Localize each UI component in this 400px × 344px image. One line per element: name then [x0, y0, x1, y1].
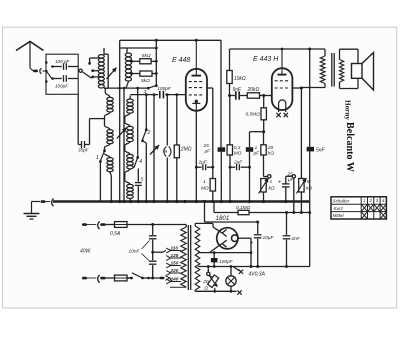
- wire: [123, 88, 125, 201]
- antenna input box: [46, 54, 78, 94]
- svg-text:4V0,3A: 4V0,3A: [249, 272, 266, 278]
- mains transformer primary: [181, 227, 186, 287]
- svg-text:kΩ: kΩ: [306, 186, 312, 192]
- trimmer arrow T1: [117, 128, 127, 139]
- svg-text:20: 20: [202, 279, 209, 285]
- rail B+ raw: [204, 202, 206, 223]
- svg-text:+: +: [278, 180, 281, 186]
- capacitor 100pF hum: [213, 253, 215, 258]
- svg-text:25: 25: [203, 143, 210, 149]
- svg-text:40W: 40W: [80, 249, 92, 255]
- resistor 10k ohm: [229, 49, 231, 71]
- capacitor 100pF upper: [53, 66, 62, 68]
- antenna coil L1: [103, 48, 105, 55]
- svg-text:100 pF: 100 pF: [55, 59, 70, 64]
- svg-text:μF: μF: [253, 151, 261, 157]
- wire: [229, 96, 231, 145]
- wires to speaker: [340, 48, 359, 50]
- svg-text:+: +: [251, 241, 254, 247]
- capacitor 35pF: [81, 141, 83, 148]
- svg-text:110: 110: [171, 246, 179, 251]
- filament x marks: [276, 113, 280, 117]
- secondary top wire to rectifier: [194, 223, 196, 226]
- winding bottom return: [170, 286, 186, 288]
- antenna coil L3: [107, 130, 113, 133]
- svg-text:E 443 H: E 443 H: [253, 56, 279, 63]
- output transformer secondary: [339, 49, 341, 59]
- wire 35pF riser: [89, 119, 91, 145]
- resistor 20k ohm cathode: [263, 132, 265, 145]
- fuse lower: [115, 275, 128, 281]
- svg-text:4: 4: [139, 159, 142, 165]
- oscillator coil L5: [129, 96, 131, 99]
- svg-text:10μF: 10μF: [263, 235, 275, 241]
- E443H screen wire: [292, 87, 301, 89]
- svg-text:0,3: 0,3: [234, 145, 241, 151]
- L3-L4 link: [105, 144, 111, 148]
- svg-text:0,5A: 0,5A: [110, 231, 121, 237]
- E443H anode: [278, 74, 287, 76]
- rectifier cathode: [232, 235, 239, 242]
- antenna coil L4: [105, 154, 111, 158]
- L7-L8 link: [125, 169, 130, 173]
- svg-text:1: 1: [255, 145, 258, 151]
- potentiometer 1k ohm: [261, 179, 266, 193]
- svg-text:MΩ: MΩ: [201, 186, 209, 192]
- svg-text:Mittel: Mittel: [333, 213, 345, 218]
- svg-text:kΩ: kΩ: [268, 151, 274, 157]
- svg-text:5: 5: [141, 177, 144, 182]
- svg-text:Ω: Ω: [204, 286, 208, 292]
- resistor 0.3M ohm: [227, 145, 232, 155]
- output transformer primary: [324, 49, 326, 56]
- svg-text:20: 20: [267, 145, 274, 151]
- antenna: [16, 42, 44, 51]
- anode line to transformer: [230, 48, 326, 50]
- svg-text:35pF: 35pF: [78, 148, 90, 153]
- tube E443H: [272, 68, 293, 110]
- svg-text:1: 1: [203, 179, 206, 185]
- E443H grid dashes: [275, 80, 290, 82]
- oscillator coil L8: [127, 184, 134, 187]
- secondary tap wire to rectifier anode: [198, 252, 251, 254]
- decoupling 5nF: [309, 49, 311, 147]
- svg-text:10kΩ: 10kΩ: [234, 76, 246, 82]
- mains transformer taps: [166, 248, 171, 253]
- L2-L3 link: [105, 112, 111, 116]
- svg-text:150: 150: [171, 261, 179, 266]
- potentiometer 5k ohm: [292, 175, 295, 178]
- trimmer arrow T2: [153, 95, 155, 202]
- heater return with x: [195, 290, 236, 292]
- svg-text:2: 2: [368, 198, 372, 203]
- svg-text:1801: 1801: [216, 215, 230, 222]
- svg-text:MΩ: MΩ: [234, 151, 242, 157]
- svg-text:0,5MΩ: 0,5MΩ: [246, 112, 261, 118]
- svg-text:μF: μF: [204, 149, 212, 155]
- resistor 20 ohm variable: [207, 267, 209, 273]
- L6-L7 link: [125, 142, 130, 146]
- table X marks kurz: [361, 204, 367, 211]
- resistor 2M ohm: [176, 95, 178, 145]
- svg-text:Kurz: Kurz: [334, 206, 344, 211]
- switch line from L1: [104, 87, 148, 89]
- bus plug: [41, 200, 46, 203]
- mains transformer core: [187, 225, 189, 290]
- L1 core bracket: [107, 54, 109, 88]
- svg-text:Belcanto W: Belcanto W: [344, 122, 355, 172]
- mains transformer secondary: [195, 226, 200, 290]
- svg-text:kΩ: kΩ: [269, 186, 275, 192]
- svg-text:220: 220: [170, 268, 179, 273]
- wire from box to 35pF: [77, 94, 79, 141]
- rail corner: [309, 213, 311, 267]
- svg-text:Horny: Horny: [344, 100, 352, 120]
- svg-text:5kΩ: 5kΩ: [142, 53, 151, 59]
- tube E448: [186, 69, 207, 111]
- svg-text:Schalter: Schalter: [333, 198, 350, 203]
- switch in box: [45, 61, 48, 64]
- speaker: [352, 64, 363, 79]
- mains switch: [130, 277, 133, 280]
- svg-text:2μF: 2μF: [233, 160, 243, 166]
- svg-text:5: 5: [307, 179, 310, 185]
- E448 anode: [192, 75, 202, 77]
- svg-text:5kΩ: 5kΩ: [141, 78, 150, 84]
- svg-text:100pF: 100pF: [219, 259, 234, 265]
- oscillator coil L7: [127, 154, 134, 157]
- capacitor 2nF: [286, 213, 288, 235]
- antenna coil L2: [105, 93, 110, 98]
- wire branch to 1uF: [250, 131, 264, 133]
- svg-text:7a: 7a: [162, 149, 168, 155]
- mains plug upper: [82, 223, 87, 226]
- rectifier tube 1801: [217, 228, 238, 249]
- capacitor 10nF lower: [149, 260, 157, 262]
- svg-text:20kΩ: 20kΩ: [247, 87, 260, 93]
- anode supply line top: [120, 39, 221, 41]
- pilot lamp: [230, 267, 232, 276]
- table X marks mittel: [361, 212, 367, 219]
- wire left edge: [119, 40, 121, 201]
- wire anode down: [220, 40, 222, 147]
- heater wire with x: [233, 267, 240, 271]
- resistor 5k ohm lower: [140, 71, 152, 76]
- E448 cathode wire: [195, 111, 197, 202]
- antenna plug: [30, 68, 33, 71]
- oscillator coil L6: [127, 126, 134, 130]
- svg-text:100pF: 100pF: [55, 84, 69, 89]
- trimmer arrow on L1: [107, 68, 117, 80]
- wave switch contact: [79, 69, 82, 72]
- ground bus: [53, 200, 310, 202]
- fuse 0.5A: [115, 222, 128, 228]
- switch 3: [155, 84, 158, 87]
- capacitor 100pF lower: [53, 78, 62, 80]
- IF coil: [126, 48, 128, 53]
- wire caps midpoint to 110 tap: [153, 251, 163, 253]
- svg-text:240: 240: [170, 277, 179, 282]
- E448 screen wire: [207, 87, 213, 89]
- E448 cathode: [195, 100, 198, 103]
- tuning gang 7a: [166, 95, 168, 146]
- capacitor 10nF upper: [152, 225, 154, 235]
- svg-text:2nF: 2nF: [291, 236, 301, 242]
- E448 screen grid dashes: [189, 81, 204, 83]
- capacitor 10uF electrolytic: [257, 222, 259, 234]
- switch contacts dots: [88, 62, 91, 65]
- E448 control grid dashes: [189, 94, 204, 96]
- IF box top: [120, 47, 157, 49]
- wire to transformer: [153, 224, 187, 226]
- svg-text:125: 125: [171, 253, 179, 258]
- svg-text:1: 1: [270, 179, 273, 185]
- mains plug lower: [82, 277, 87, 280]
- svg-text:2MΩ: 2MΩ: [180, 147, 192, 153]
- switch 1: [103, 149, 106, 152]
- heater rail: [198, 266, 310, 268]
- E443H filament: [279, 100, 286, 112]
- svg-text:1: 1: [96, 155, 99, 161]
- svg-text:5nF: 5nF: [233, 87, 243, 93]
- svg-text:10nF: 10nF: [129, 249, 141, 255]
- switch table: [331, 197, 386, 219]
- svg-text:E 448: E 448: [172, 57, 190, 64]
- svg-text:5nF: 5nF: [316, 148, 326, 154]
- rail B+ filtered: [214, 212, 310, 214]
- bus junction dots: [183, 200, 186, 203]
- capacitor 1uF: [246, 147, 253, 152]
- wire B+ to switch 3: [155, 48, 157, 85]
- resistor 0.5M ohm: [263, 96, 265, 108]
- L5-L6 link: [125, 113, 130, 117]
- ground: [32, 201, 41, 203]
- transformer core: [331, 53, 333, 87]
